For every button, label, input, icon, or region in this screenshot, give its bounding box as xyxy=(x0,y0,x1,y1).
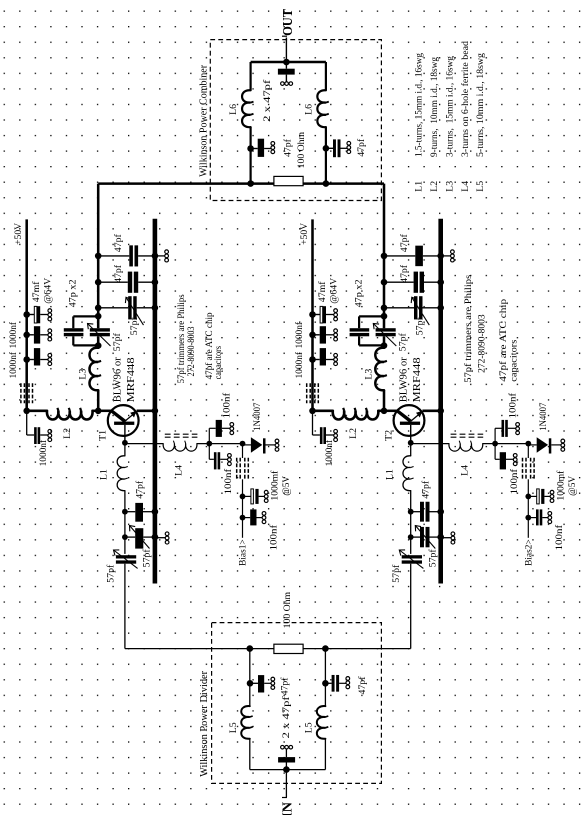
svg-text:47pf are ATC chip: 47pf are ATC chip xyxy=(498,299,509,382)
junction collector (T1) xyxy=(95,408,102,415)
resistor 100 Ohm combiner xyxy=(274,176,303,185)
svg-text:100 Ohm: 100 Ohm xyxy=(296,132,307,169)
node IN junction xyxy=(283,766,290,773)
svg-text:57pf: 57pf xyxy=(427,549,438,568)
inductor L5 right xyxy=(317,706,326,739)
capacitor 100nf bias down (T1) xyxy=(208,444,210,460)
svg-text:L1: L1 xyxy=(99,469,110,480)
svg-text:47pf: 47pf xyxy=(113,264,124,283)
transistor T2 xyxy=(394,405,425,436)
ground 100nf up (T2) xyxy=(516,423,520,427)
svg-text:BLW96 or: BLW96 or xyxy=(398,357,409,403)
svg-text:57pf: 57pf xyxy=(391,564,402,583)
capacitor 47pf row1 (T2) xyxy=(384,255,415,257)
svg-text:47pf: 47pf xyxy=(356,138,367,157)
ground 1000mf (T1) xyxy=(264,490,268,494)
capacitor 47pf row1 (T1) xyxy=(98,255,129,257)
svg-text:1000nf: 1000nf xyxy=(295,351,305,378)
capacitor 1000nf a (T2) xyxy=(313,334,320,336)
junction row3 (T2) xyxy=(381,305,388,312)
ferrite bead bias (T1) xyxy=(236,458,238,480)
svg-text:47mf: 47mf xyxy=(317,281,328,302)
capacitor 47pf row2 (T1) xyxy=(98,281,128,283)
ground 1000nf b (T1) xyxy=(48,353,52,357)
junction rail 1000nf b (T2) xyxy=(309,356,316,363)
wire supply to L2 (T2) xyxy=(313,410,333,413)
ground at bus top (T2) xyxy=(443,255,451,257)
svg-text:47pf: 47pf xyxy=(279,677,290,696)
junction divider left cap xyxy=(247,680,254,687)
inductor L3 (T2) xyxy=(375,348,384,391)
capacitor 2x47pf at OUT node xyxy=(285,62,287,69)
wire combiner left branch xyxy=(250,62,252,90)
capacitor 47p x2 (T2) xyxy=(350,328,370,331)
svg-text:47pf: 47pf xyxy=(113,234,124,253)
svg-text:1.5-turns, 15mm i.d., 16swg: 1.5-turns, 15mm i.d., 16swg xyxy=(414,53,425,157)
junction combiner left cap xyxy=(247,145,254,152)
svg-text:9-turns, 10mm i.d., 18swg: 9-turns, 10mm i.d., 18swg xyxy=(429,57,440,157)
junction bus row2 (T1) xyxy=(152,279,159,286)
wire L1 down (T2) xyxy=(410,491,412,554)
inductor L3 (T1) xyxy=(90,348,99,391)
transistor T1 xyxy=(108,405,139,436)
svg-text:L3: L3 xyxy=(444,181,455,192)
capacitor 47pf divider right xyxy=(325,682,331,684)
svg-text:OUT: OUT xyxy=(280,9,295,36)
ground 1000nf supply (T1) xyxy=(48,429,52,433)
svg-text:47p x2: 47p x2 xyxy=(68,279,79,307)
junction row1 (T2) xyxy=(381,253,388,260)
svg-text:L1: L1 xyxy=(384,469,395,480)
junction emitter bus (T1) xyxy=(152,408,159,415)
svg-text:57pf trimmers are Philips: 57pf trimmers are Philips xyxy=(463,275,474,383)
ground at bus bottom (T2) xyxy=(443,537,451,539)
wire L1 down (T1) xyxy=(124,491,126,554)
wire divider left branch xyxy=(249,649,251,707)
capacitor 1000nf a (T1) xyxy=(27,334,34,336)
svg-text:100nf: 100nf xyxy=(555,524,565,551)
inductor L5 left xyxy=(241,706,250,739)
inductor L6 right xyxy=(317,90,326,127)
junction bus input trimmer (T1) xyxy=(152,534,159,541)
junction row2 (T1) xyxy=(95,279,102,286)
junction rail 1000nf a (T1) xyxy=(23,332,30,339)
junction rail 1000nf b (T1) xyxy=(23,356,30,363)
svg-text:capacitors: capacitors xyxy=(508,340,519,382)
wire base to L1 (T2) xyxy=(410,443,412,456)
junction rail 1000nf a (T2) xyxy=(309,332,316,339)
svg-text:57pf: 57pf xyxy=(105,564,116,583)
ground 1000mf (T2) xyxy=(550,490,554,494)
wire L4 to bias node (T2) xyxy=(483,443,529,445)
ground 1000nf supply (T2) xyxy=(334,429,338,433)
inductor L6 left xyxy=(242,90,251,127)
trimmer 57pf row3 (T1) xyxy=(98,307,128,309)
wire base to L1 (T1) xyxy=(124,443,126,456)
svg-text:@64V: @64V xyxy=(328,278,339,304)
wire L4 to bias node (T1) xyxy=(197,443,243,445)
svg-text:@64V: @64V xyxy=(43,278,54,304)
svg-text:L2: L2 xyxy=(62,428,73,439)
svg-text:L4: L4 xyxy=(174,465,185,476)
junction bus row1 (T2) xyxy=(437,253,444,260)
svg-text:T1: T1 xyxy=(98,430,109,441)
svg-text:IN: IN xyxy=(280,802,295,815)
capacitor 47pf input (T1) xyxy=(125,511,135,513)
svg-text:1000mf: 1000mf xyxy=(556,470,566,501)
junction supply node (T1) xyxy=(23,408,30,415)
junction input 47pf (T1) xyxy=(122,509,128,515)
ground 47mf (T1) xyxy=(48,309,52,313)
svg-text:L1: L1 xyxy=(414,181,425,192)
combiner dashed box xyxy=(210,40,381,201)
trimmer 57pf input shunt (T2) xyxy=(411,536,420,538)
node OUT junction xyxy=(283,59,290,66)
svg-text:100nf: 100nf xyxy=(223,392,233,419)
svg-text:57pf: 57pf xyxy=(129,317,140,336)
svg-text:1000nf: 1000nf xyxy=(9,321,19,348)
svg-text:+50V: +50V xyxy=(299,223,310,245)
inductor L4 (T2) xyxy=(449,444,483,452)
svg-text:272-8090-8003: 272-8090-8003 xyxy=(476,314,487,373)
wire bias down (T2) xyxy=(527,444,529,458)
svg-text:57pf: 57pf xyxy=(142,549,153,568)
wire collector line (T1) xyxy=(97,184,100,329)
junction bias b (T2) xyxy=(525,441,531,447)
wire output bus xyxy=(98,182,384,185)
capacitor 100nf bias down (T2) xyxy=(494,444,496,460)
capacitor 1000nf at supply node (T2) xyxy=(312,411,314,435)
junction supply node (T2) xyxy=(309,408,316,415)
junction bus right branch xyxy=(323,180,330,187)
trimmer 57pf series (T2) xyxy=(402,555,422,558)
wire base to L4 (T1) xyxy=(125,443,163,445)
trimmer 57pf series (T1) xyxy=(116,555,136,558)
junction bus left branch xyxy=(247,180,254,187)
svg-text:57pf: 57pf xyxy=(112,333,123,352)
junction divider left xyxy=(247,645,254,652)
capacitor 47p x2 (T1) xyxy=(64,328,84,331)
junction loop top (T2) xyxy=(381,313,388,320)
wire bias down 2 (T1) xyxy=(242,479,244,538)
+50V rail (T2) xyxy=(311,219,314,410)
trimmer 57pf row3 (T2) xyxy=(384,307,414,309)
junction input trimmer (T2) xyxy=(408,534,414,540)
inductor L2 (T1) xyxy=(47,411,93,420)
junction loop bottom (T2) xyxy=(381,342,388,349)
ground 100nf down (T2) xyxy=(513,454,517,458)
ground at bus top (T1) xyxy=(157,255,165,257)
junction loop top (T1) xyxy=(95,313,102,320)
svg-text:L3: L3 xyxy=(78,369,89,380)
svg-text:MRF448: MRF448 xyxy=(126,357,137,402)
junction rail 47mf (T2) xyxy=(309,311,316,318)
svg-text:47mf: 47mf xyxy=(31,281,42,302)
inductor L4 (T1) xyxy=(163,444,197,452)
wire combiner right branch xyxy=(325,62,327,90)
svg-text:57pf: 57pf xyxy=(415,317,426,336)
junction bus row1 (T1) xyxy=(152,253,159,260)
svg-text:3-turns, 15mm i.d., 16swg: 3-turns, 15mm i.d., 16swg xyxy=(444,56,455,157)
svg-text:capacitors: capacitors xyxy=(214,346,224,380)
svg-text:1000nf: 1000nf xyxy=(39,439,49,466)
capacitor 47pf divider left xyxy=(250,682,258,684)
wire IN lead xyxy=(285,770,287,797)
ferrite bead on rail (T2) xyxy=(306,383,308,403)
ground diode (T1) xyxy=(275,439,279,443)
svg-text:1N4007: 1N4007 xyxy=(539,402,549,430)
capacitor 47mf @64V (T2) xyxy=(313,314,321,316)
capacitor 47pf combiner left xyxy=(251,148,258,150)
junction 1000mf (T2) xyxy=(525,494,531,500)
capacitor 100nf bias up (T2) xyxy=(494,428,496,443)
ferrite bead on rail (T1) xyxy=(20,383,22,403)
svg-text:47pf: 47pf xyxy=(357,676,368,695)
junction bus row3 (T1) xyxy=(152,305,159,312)
wire divider input row xyxy=(125,648,274,650)
capacitor 100nf bottom (T1) xyxy=(243,517,251,519)
svg-text:Bias1>: Bias1> xyxy=(238,539,248,566)
svg-text:@5V: @5V xyxy=(568,476,578,496)
ground 1000nf a (T1) xyxy=(48,329,52,333)
ground divider right cap xyxy=(346,677,350,681)
ground at OUT capacitor xyxy=(281,82,285,86)
diode 1N4007 (T1) xyxy=(243,444,252,446)
capacitor 47pf row2 (T2) xyxy=(384,281,414,283)
junction base (T1) xyxy=(122,440,128,446)
wire OUT lead xyxy=(285,38,287,63)
inductor L1 (T2) xyxy=(403,456,411,491)
junction bias a (T2) xyxy=(492,441,498,447)
wire L2 to collector (T2) xyxy=(378,410,384,413)
trimmer 57pf input shunt (T1) xyxy=(125,536,135,538)
ground divider left cap xyxy=(271,677,275,681)
capacitor 47mf @64V (T1) xyxy=(27,314,35,316)
capacitor 1000nf b (T2) xyxy=(313,359,320,361)
svg-text:1N4007: 1N4007 xyxy=(253,402,263,430)
junction bus row3 (T2) xyxy=(437,305,444,312)
svg-text:5-turns, 10mm i.d., 18swg: 5-turns, 10mm i.d., 18swg xyxy=(475,53,486,157)
svg-text:Wilkinson Power Divider: Wilkinson Power Divider xyxy=(199,670,210,777)
svg-text:L5: L5 xyxy=(475,181,486,192)
junction bus input 47pf (T1) xyxy=(152,508,159,515)
svg-text:100 Ohm: 100 Ohm xyxy=(282,592,293,629)
svg-text:47pf: 47pf xyxy=(420,480,431,499)
svg-text:L6: L6 xyxy=(228,104,239,115)
ground combiner left cap xyxy=(271,142,275,146)
junction collector (T2) xyxy=(381,408,388,415)
junction 1000mf (T1) xyxy=(240,494,246,500)
svg-text:47pf are ATC chip: 47pf are ATC chip xyxy=(204,312,215,379)
junction combiner right cap xyxy=(323,145,330,152)
svg-text:2 x 47pf: 2 x 47pf xyxy=(281,695,292,738)
ground diode (T2) xyxy=(561,439,565,443)
svg-text:100nf: 100nf xyxy=(269,524,279,551)
wire base to L4 (T2) xyxy=(411,443,449,445)
ground 1000nf b (T2) xyxy=(334,353,338,357)
wire supply to L2 (T1) xyxy=(27,410,47,413)
ferrite bead marks L4 (T1) xyxy=(165,433,198,435)
capacitor 1000nf at supply node (T1) xyxy=(26,411,28,435)
svg-text:47pf: 47pf xyxy=(399,264,410,283)
junction emitter bus (T2) xyxy=(437,408,444,415)
svg-text:L3: L3 xyxy=(363,369,374,380)
junction bus input 47pf (T2) xyxy=(437,508,444,515)
svg-text:57pf: 57pf xyxy=(398,333,409,352)
ground 47mf (T2) xyxy=(334,309,338,313)
junction bias a (T1) xyxy=(206,441,212,447)
svg-text:1000nf: 1000nf xyxy=(295,321,305,348)
ground 100nf down (T1) xyxy=(228,454,232,458)
svg-text:100nf: 100nf xyxy=(510,468,520,495)
wire collector line (T2) xyxy=(383,184,386,329)
svg-text:2 x 47pf: 2 x 47pf xyxy=(262,79,273,122)
capacitor 2x47pf at IN node xyxy=(285,749,287,757)
svg-text:Wilkinson Power Combiner: Wilkinson Power Combiner xyxy=(199,64,210,177)
ground at IN capacitor xyxy=(281,745,285,749)
svg-text:L2: L2 xyxy=(348,428,359,439)
ground combiner right cap xyxy=(347,141,351,145)
svg-text:L2: L2 xyxy=(429,181,440,192)
wire T2 input to divider xyxy=(410,564,412,649)
ferrite bead marks L4 (T2) xyxy=(451,433,484,435)
junction row1 (T1) xyxy=(95,253,102,260)
divider dashed box xyxy=(212,623,382,784)
svg-text:1000nf: 1000nf xyxy=(325,439,335,466)
junction bus input trimmer (T2) xyxy=(437,534,444,541)
junction input 47pf (T2) xyxy=(408,509,414,515)
wire combiner output node xyxy=(251,61,326,64)
svg-text:Bias2>: Bias2> xyxy=(524,539,534,566)
svg-text:L4: L4 xyxy=(459,465,470,476)
+50V rail (T1) xyxy=(25,219,28,410)
svg-text:47pf: 47pf xyxy=(399,234,410,253)
junction bias b (T1) xyxy=(240,441,246,447)
wire bias down (T1) xyxy=(242,444,244,458)
svg-text:57pf trimmers are Philips: 57pf trimmers are Philips xyxy=(176,294,187,383)
svg-text:272-8090-8003: 272-8090-8003 xyxy=(187,326,197,376)
resistor 100 Ohm divider xyxy=(274,644,303,653)
wire T1 input to divider xyxy=(124,564,126,649)
svg-text:MRF448: MRF448 xyxy=(412,357,423,402)
capacitor 47pf combiner right xyxy=(326,147,333,149)
inductor L1 (T1) xyxy=(117,456,125,491)
junction divider right xyxy=(322,645,329,652)
ground 1000nf a (T2) xyxy=(334,329,338,333)
ground 100nf up (T1) xyxy=(230,423,234,427)
ferrite bead bias (T2) xyxy=(522,458,524,480)
junction row2 (T2) xyxy=(381,279,388,286)
junction row3 (T1) xyxy=(95,305,102,312)
svg-text:1000nf: 1000nf xyxy=(9,351,19,378)
capacitor 1000mf @5V (T1) xyxy=(243,495,251,497)
svg-text:BLW96 or: BLW96 or xyxy=(113,357,124,403)
junction divider right cap xyxy=(322,680,329,687)
svg-text:@5V: @5V xyxy=(282,476,292,496)
trimmer 57pf loop (T2) xyxy=(376,328,396,331)
svg-text:L4: L4 xyxy=(460,181,471,192)
wire bias down 2 (T2) xyxy=(527,479,529,538)
svg-text:47p x2: 47p x2 xyxy=(354,279,365,307)
ground bus (T1) xyxy=(153,219,158,584)
capacitor 100nf bias up (T1) xyxy=(208,428,210,443)
junction 100nf bottom (T2) xyxy=(525,515,531,521)
svg-text:100nf: 100nf xyxy=(224,468,234,495)
junction input trimmer (T1) xyxy=(122,534,128,540)
wire loop (T2) xyxy=(359,315,384,317)
wire L2 to collector (T1) xyxy=(93,410,99,413)
ground 100nf bottom (T2) xyxy=(548,512,552,516)
junction rail 47mf (T1) xyxy=(23,311,30,318)
junction base (T2) xyxy=(408,440,414,446)
ground bus (T2) xyxy=(438,219,443,584)
svg-text:L5: L5 xyxy=(228,722,239,733)
wire divider right branch xyxy=(324,649,326,707)
svg-text:T2: T2 xyxy=(383,430,394,441)
trimmer 57pf loop (T1) xyxy=(90,328,110,331)
svg-text:L5: L5 xyxy=(304,722,315,733)
ground at bus bottom (T1) xyxy=(157,537,165,539)
ground 100nf bottom (T1) xyxy=(262,512,266,516)
capacitor 1000nf b (T1) xyxy=(27,359,34,361)
inductor L2 (T2) xyxy=(333,411,379,420)
wire loop (T1) xyxy=(73,315,98,317)
svg-text:L6: L6 xyxy=(304,104,315,115)
capacitor 100nf bottom (T2) xyxy=(528,517,536,519)
capacitor 47pf input (T2) xyxy=(411,511,420,513)
svg-text:47pf: 47pf xyxy=(135,480,146,499)
junction bus row2 (T2) xyxy=(437,279,444,286)
svg-text:1000mf: 1000mf xyxy=(271,470,281,501)
svg-text:+50V: +50V xyxy=(13,223,24,245)
diode 1N4007 (T2) xyxy=(528,444,537,446)
svg-text:47pf: 47pf xyxy=(282,138,293,157)
junction 100nf bottom (T1) xyxy=(240,515,246,521)
svg-text:3-turns on 6-hole ferrite bead: 3-turns on 6-hole ferrite bead xyxy=(460,41,471,157)
junction loop bottom (T1) xyxy=(95,342,102,349)
capacitor 1000mf @5V (T2) xyxy=(528,495,536,497)
svg-text:100nf: 100nf xyxy=(508,392,518,419)
